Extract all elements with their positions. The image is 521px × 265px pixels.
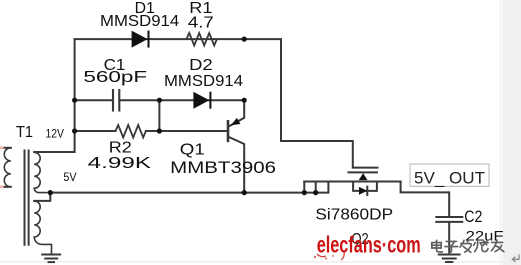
svg-text:4.7: 4.7 bbox=[188, 14, 214, 31]
svg-text:5V: 5V bbox=[63, 170, 76, 184]
svg-text:D2: D2 bbox=[189, 57, 213, 74]
svg-text:560pF: 560pF bbox=[83, 69, 147, 86]
svg-text:Si7860DP: Si7860DP bbox=[315, 206, 393, 223]
svg-text:4.99K: 4.99K bbox=[88, 155, 152, 172]
svg-text:elecfans·com: elecfans·com bbox=[317, 231, 421, 257]
svg-text:MMSD914: MMSD914 bbox=[100, 13, 179, 30]
svg-text:5V_ OUT: 5V_ OUT bbox=[414, 169, 485, 188]
svg-text:Q1: Q1 bbox=[180, 142, 205, 159]
svg-text:12V: 12V bbox=[46, 127, 65, 141]
svg-text:MMBT3906: MMBT3906 bbox=[170, 158, 276, 177]
svg-text:MMSD914: MMSD914 bbox=[164, 73, 243, 90]
svg-text:T1: T1 bbox=[16, 124, 33, 141]
svg-text:R2: R2 bbox=[109, 140, 132, 157]
svg-text:C2: C2 bbox=[464, 207, 482, 226]
